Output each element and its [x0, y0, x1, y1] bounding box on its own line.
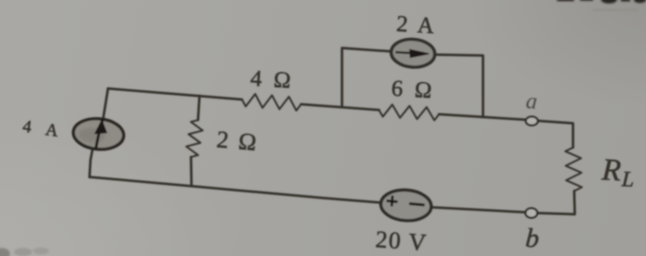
svg-text:4 A: 4 A: [21, 116, 65, 142]
svg-text:b: b: [525, 223, 541, 254]
svg-text:6 Ω: 6 Ω: [391, 76, 436, 104]
svg-text:a: a: [525, 88, 538, 114]
svg-text:2 Ω: 2 Ω: [215, 127, 259, 157]
svg-text:L: L: [620, 166, 635, 192]
svg-text:4 Ω: 4 Ω: [250, 66, 295, 94]
svg-text:20 V: 20 V: [375, 227, 428, 256]
svg-text:R: R: [600, 151, 622, 187]
svg-text:2 A: 2 A: [396, 11, 438, 38]
